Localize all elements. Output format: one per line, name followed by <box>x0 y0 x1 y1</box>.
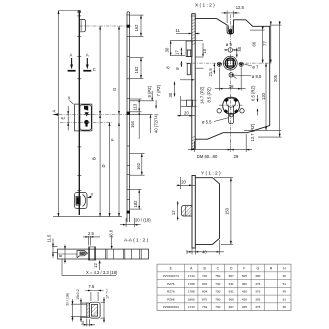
svg-text:162: 162 <box>134 66 139 74</box>
svg-text:20 / (18): 20 / (18) <box>65 293 69 306</box>
rail segment dividers <box>106 249 142 259</box>
svg-text:X = 4.3 / 3.3 (18): X = 4.3 / 3.3 (18) <box>86 270 118 275</box>
svg-text:10: 10 <box>202 48 207 53</box>
svg-text:45: 45 <box>283 274 287 278</box>
rail inner line <box>58 253 78 255</box>
faceplate hatch bottom <box>192 136 195 150</box>
table header row <box>170 267 287 271</box>
svg-text:DM 60...80: DM 60...80 <box>197 154 218 159</box>
middle lock point mark <box>127 112 130 115</box>
hook pin side mark <box>127 25 130 28</box>
bottom lock point <box>75 193 88 209</box>
svg-text:420: 420 <box>242 297 247 301</box>
svg-text:430: 430 <box>242 290 247 294</box>
svg-text:6.5 (RZ): 6.5 (RZ) <box>250 85 255 101</box>
svg-text:162: 162 <box>136 162 141 170</box>
svg-text:150: 150 <box>225 207 230 215</box>
inner mechanism lines <box>195 56 203 58</box>
svg-text:376: 376 <box>255 282 260 286</box>
dim 7 (PZ) <box>155 100 157 109</box>
svg-text:9 (PZ): 9 (PZ) <box>147 85 152 97</box>
svg-text:12.8: 12.8 <box>236 5 245 10</box>
left screw hole <box>217 62 221 66</box>
dim 40 (72/74) <box>130 114 153 116</box>
bottom joint mark <box>127 211 130 214</box>
faceplate pocket 2 <box>187 64 190 75</box>
cylinder axis dashes <box>219 104 244 106</box>
svg-text:460: 460 <box>242 282 247 286</box>
svg-text:182: 182 <box>133 200 138 208</box>
svg-text:X ( 1 : 2 ): X ( 1 : 2 ) <box>195 3 215 9</box>
svg-text:PZ76: PZ76 <box>167 282 175 286</box>
top hook element <box>80 19 86 31</box>
svg-text:30: 30 <box>165 47 170 52</box>
svg-text:20: 20 <box>181 179 186 184</box>
svg-text:G: G <box>112 88 117 91</box>
svg-text:12: 12 <box>93 262 98 267</box>
svg-text:631: 631 <box>229 290 234 294</box>
bottom reference line <box>53 216 122 218</box>
svg-text:164: 164 <box>130 120 135 128</box>
cylinder side small circles <box>217 109 221 113</box>
section arrow left <box>71 58 73 67</box>
svg-text:B: B <box>91 157 96 160</box>
cylinder flank marks <box>224 97 229 102</box>
svg-text:392: 392 <box>255 297 260 301</box>
svg-text:1744: 1744 <box>188 274 195 278</box>
svg-text:17: 17 <box>175 50 180 55</box>
svg-text:2.5: 2.5 <box>88 231 94 236</box>
svg-text:50: 50 <box>237 46 242 51</box>
vertical centerline <box>230 15 232 153</box>
rail joint ticks <box>77 16 81 190</box>
svg-text:A: A <box>70 52 73 57</box>
faceplate slice <box>88 247 89 261</box>
table grid <box>157 264 291 311</box>
faceplate hatch top <box>192 19 195 45</box>
svg-text:A: A <box>86 52 89 57</box>
dim line G/F at x=119 <box>118 26 120 217</box>
faceplate bar <box>192 14 195 149</box>
svg-text:51: 51 <box>283 282 287 286</box>
faceplate pocket 1 <box>186 41 192 57</box>
svg-text:ø 7: ø 7 <box>252 64 259 69</box>
lock case inner body <box>80 105 91 130</box>
svg-text:376: 376 <box>255 305 260 309</box>
dim 9 (PZ) <box>130 100 154 102</box>
svg-text:667: 667 <box>229 305 234 309</box>
svg-text:40 (72/74): 40 (72/74) <box>153 113 158 133</box>
svg-text:A-A ( 1 : 2 ): A-A ( 1 : 2 ) <box>124 238 149 244</box>
dim 164 <box>138 112 140 139</box>
body outline <box>195 178 219 245</box>
svg-text:730: 730 <box>215 290 220 294</box>
small hole o9 <box>228 48 232 52</box>
svg-text:15.6: 15.6 <box>108 229 113 238</box>
svg-text:17 ⁻⁰⋅⁵: 17 ⁻⁰⋅⁵ <box>105 288 109 299</box>
svg-text:ø 9: ø 9 <box>226 42 233 47</box>
svg-text:66: 66 <box>251 41 256 46</box>
dim 162 fourth <box>130 189 142 191</box>
dim 162 upper <box>130 14 144 16</box>
svg-text:F: F <box>110 138 115 141</box>
svg-text:PZ72/RZ74: PZ72/RZ74 <box>163 274 179 278</box>
follower corner ticks <box>226 59 235 68</box>
svg-text:7 (PZ): 7 (PZ) <box>156 84 161 96</box>
svg-text:960: 960 <box>229 297 234 301</box>
follower mark <box>85 112 89 116</box>
svg-text:162: 162 <box>134 24 139 32</box>
lock screw circle <box>229 73 233 77</box>
svg-text:ø 8.5: ø 8.5 <box>252 74 262 79</box>
svg-text:20 / (18): 20 / (18) <box>135 217 151 222</box>
svg-text:625: 625 <box>242 274 247 278</box>
svg-text:804: 804 <box>202 290 207 294</box>
svg-text:8.5 (PZ): 8.5 (PZ) <box>207 87 212 103</box>
follower axis centerline <box>53 114 132 116</box>
svg-text:11: 11 <box>176 28 181 33</box>
svg-text:631: 631 <box>229 282 234 286</box>
svg-text:PZ92/RZ94: PZ92/RZ94 <box>163 305 179 309</box>
table data rows <box>163 274 286 309</box>
svg-text:120: 120 <box>261 92 266 100</box>
svg-text:730: 730 <box>215 305 220 309</box>
svg-text:61: 61 <box>283 297 287 301</box>
faceplate slice <box>87 303 90 317</box>
svg-text:A: A <box>52 110 57 113</box>
right screw hole <box>239 62 243 66</box>
svg-text:1744: 1744 <box>188 305 195 309</box>
hook centerline <box>80 25 132 27</box>
svg-text:F: F <box>243 267 245 271</box>
svg-text:RZ78: RZ78 <box>167 290 175 294</box>
lock case outline <box>75 104 92 131</box>
svg-text:804: 804 <box>202 282 207 286</box>
cylinder axis centerline <box>60 121 112 123</box>
strip joints <box>127 15 130 199</box>
svg-text:205: 205 <box>273 74 278 82</box>
svg-text:30: 30 <box>168 92 173 97</box>
follower <box>223 56 237 70</box>
dim 12.8 top <box>226 11 228 23</box>
dim 162 lower <box>130 57 144 59</box>
dim E between axes <box>67 106 69 131</box>
svg-text:1788: 1788 <box>188 282 195 286</box>
svg-text:X: X <box>68 96 71 101</box>
svg-text:D: D <box>101 164 106 167</box>
latch <box>84 106 88 111</box>
faceplate rail front view <box>78 11 80 215</box>
top pin slot inner <box>229 26 233 33</box>
faceplate bar <box>192 176 195 249</box>
svg-text:15±0.2: 15±0.2 <box>76 289 80 299</box>
svg-text:376: 376 <box>255 290 260 294</box>
svg-text:60: 60 <box>283 305 287 309</box>
svg-text:29: 29 <box>234 154 239 159</box>
svg-text:PZ88: PZ88 <box>167 297 175 301</box>
dim 162 third <box>130 153 145 155</box>
svg-text:38: 38 <box>229 84 234 89</box>
cylinder <box>223 97 240 114</box>
svg-text:1788: 1788 <box>188 290 195 294</box>
faceplate pocket 3 (cylinder) <box>187 100 193 106</box>
svg-text:E: E <box>60 117 65 120</box>
hook profile <box>77 251 88 258</box>
svg-text:ø 5.5: ø 5.5 <box>202 120 212 125</box>
svg-text:1860: 1860 <box>188 297 195 301</box>
svg-text:12: 12 <box>171 210 176 215</box>
arrow on follower axis <box>53 113 58 116</box>
rail top cap <box>78 10 81 13</box>
dim line D at x=109.5 <box>109 122 111 216</box>
dim A overall line <box>58 11 60 217</box>
svg-text:49: 49 <box>283 290 287 294</box>
svg-text:11.5: 11.5 <box>46 234 51 243</box>
svg-text:Y ( 1 : 2 ): Y ( 1 : 2 ) <box>201 171 221 177</box>
svg-text:77: 77 <box>262 41 267 46</box>
svg-text:667: 667 <box>229 274 234 278</box>
svg-text:12.7 (RZ): 12.7 (RZ) <box>250 123 255 141</box>
svg-text:425: 425 <box>242 305 247 309</box>
svg-text:740: 740 <box>202 274 207 278</box>
pin body <box>89 302 100 318</box>
svg-text:760: 760 <box>215 297 220 301</box>
svg-text:G: G <box>256 267 259 271</box>
dim 113 <box>130 98 142 100</box>
follower axis centerline <box>186 62 272 64</box>
pin <box>182 206 193 216</box>
svg-text:21.5: 21.5 <box>208 68 213 77</box>
svg-text:14.7 (PZ): 14.7 (PZ) <box>200 86 205 104</box>
rail bar <box>58 249 149 259</box>
section arrow right <box>86 58 88 67</box>
svg-text:390: 390 <box>255 274 260 278</box>
svg-text:750: 750 <box>215 274 220 278</box>
svg-text:730: 730 <box>215 282 220 286</box>
svg-text:875: 875 <box>202 297 207 301</box>
strip body <box>127 12 130 222</box>
svg-text:7.5: 7.5 <box>88 284 94 289</box>
svg-text:762: 762 <box>202 305 207 309</box>
svg-text:113: 113 <box>132 103 137 110</box>
svg-text:C: C <box>93 67 96 72</box>
cylinder dark <box>84 120 89 125</box>
svg-text:20: 20 <box>184 111 189 116</box>
dim line C/B at x=100 <box>99 26 101 217</box>
case outline <box>195 19 270 140</box>
